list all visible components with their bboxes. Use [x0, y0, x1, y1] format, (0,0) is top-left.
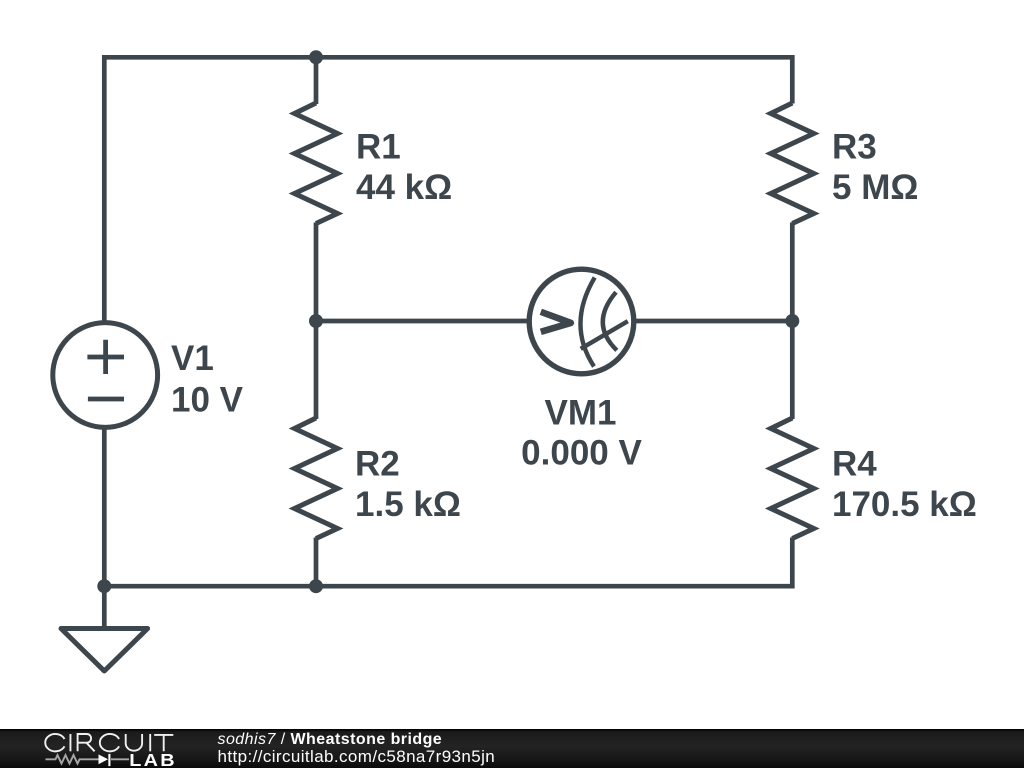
wire R1 bottom lead to mid junction: [314, 223, 319, 322]
wire R3 bottom lead to right mid junction: [790, 223, 795, 322]
VM1 meter arc large: [580, 278, 594, 367]
wire R2 top lead from mid junction: [314, 321, 319, 419]
node junction ground (V1/bottom rail): [97, 579, 111, 593]
svg-text:170.5 kΩ: 170.5 kΩ: [832, 485, 977, 524]
V1 plus sign: [87, 340, 124, 374]
logo letter U: [126, 734, 142, 751]
resistor R3: [771, 103, 814, 224]
logo letter I: [149, 734, 151, 751]
node junction top (R1/top rail): [309, 50, 323, 64]
wire R1 top lead: [314, 57, 319, 104]
logo resistor wire and zigzag: [46, 755, 130, 763]
svg-text:R3: R3: [832, 128, 877, 167]
VM1 chevron input marker: [541, 312, 571, 332]
V1 minus sign: [88, 397, 124, 402]
svg-text:R4: R4: [832, 445, 877, 484]
logo letter I: [69, 734, 71, 751]
svg-text:0.000 V: 0.000 V: [521, 434, 642, 473]
voltage source V1 circle: [53, 323, 158, 428]
node junction bottom (R2/bottom rail): [309, 579, 323, 593]
svg-text:http://circuitlab.com/c58na7r9: http://circuitlab.com/c58na7r93n5jn: [218, 747, 496, 766]
svg-text:R1: R1: [356, 128, 401, 167]
svg-text:R2: R2: [355, 445, 400, 484]
svg-text:44 kΩ: 44 kΩ: [356, 168, 452, 207]
resistor R4: [771, 418, 814, 539]
svg-text:1.5 kΩ: 1.5 kΩ: [355, 485, 461, 524]
svg-text:VM1: VM1: [545, 394, 617, 433]
resistor R2: [295, 418, 338, 539]
node junction mid right (bridge tap): [785, 314, 799, 328]
footer bar: [0, 729, 1024, 768]
wire bottom rail from V1 down over to R4: [104, 428, 792, 587]
CircuitLab logo and footer text: [0, 729, 1024, 768]
ground symbol: [61, 629, 148, 672]
wire ground stem: [102, 586, 107, 628]
VM1 needle: [581, 321, 628, 349]
voltmeter VM1 body: [529, 269, 634, 374]
resistor R1: [295, 103, 338, 224]
logo diode triangle: [99, 754, 109, 764]
wire R2 bottom lead: [314, 538, 319, 587]
node junction mid left (bridge tap): [309, 314, 323, 328]
logo letter R: [78, 734, 95, 751]
logo letter T: [154, 735, 173, 751]
logo letter C: [45, 734, 64, 751]
svg-text:V1: V1: [171, 339, 214, 378]
logo diode bar: [108, 754, 110, 766]
logo letter C: [100, 734, 119, 751]
wire bridge right (voltmeter to right mid junction): [635, 319, 792, 324]
VM1 meter arc small: [603, 292, 617, 350]
wire R4 top lead: [790, 321, 795, 419]
wire bridge left (mid junction to voltmeter): [316, 319, 528, 324]
svg-text:LAB: LAB: [129, 750, 177, 768]
svg-text:5 MΩ: 5 MΩ: [832, 168, 918, 207]
wire top rail from V1 up over to R3: [104, 57, 792, 322]
svg-text:sodhis7 / Wheatstone bridge: sodhis7 / Wheatstone bridge: [218, 731, 443, 748]
svg-text:10 V: 10 V: [171, 381, 244, 420]
